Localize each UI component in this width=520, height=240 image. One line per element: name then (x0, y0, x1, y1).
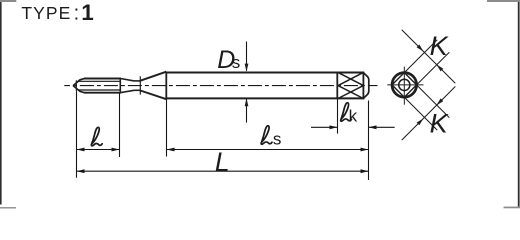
dim K top arrow 1 (417, 45, 424, 52)
shank junction line (165, 72, 167, 100)
dim l left arrow (77, 148, 85, 152)
dim K bottom arrow 1 (417, 118, 424, 125)
K ext line lower-left flat (404, 97, 437, 130)
dim K top arrow 2 (436, 64, 443, 71)
dim L line (77, 170, 369, 172)
square cross diagonal 2 (338, 72, 363, 85)
square end line (362, 72, 364, 100)
thread root line top (78, 80, 121, 82)
thread OD bottom (84, 92, 121, 94)
neck top (134, 80, 141, 82)
square section start line (336, 72, 338, 100)
dim L right arrow (361, 169, 369, 173)
dim Ds upper arrow (245, 64, 249, 72)
K ext line upper-right flat (417, 85, 450, 118)
shank bottom line (166, 97, 363, 99)
svg-text:L: L (215, 147, 230, 177)
end view inner circle (399, 79, 410, 90)
square cross diagonal 1 (338, 72, 363, 85)
dim L left arrow (77, 169, 85, 173)
svg-text:k: k (349, 106, 358, 125)
end view crosshair horizontal (387, 84, 423, 86)
border stub top-right (487, 0, 520, 2)
thread OD top (84, 78, 121, 80)
border stub bottom-left (0, 207, 16, 208)
border stub bottom-right (504, 207, 520, 209)
thread root line bottom (78, 89, 121, 91)
square cross diagonal 3 (338, 86, 363, 99)
dim Ds lower arrow (245, 98, 249, 106)
ext line shank start (ls left) (166, 99, 168, 156)
centerline (tool axis) (64, 85, 377, 87)
ext line thread end (l right) (119, 93, 121, 157)
end view square (diamond) (392, 73, 417, 98)
dim K top line (402, 30, 456, 84)
neck bottom (134, 89, 141, 91)
svg-text:K: K (430, 31, 449, 61)
end view outer circle (392, 73, 417, 98)
dim l right arrow (112, 148, 120, 152)
dim Ds lower line (246, 99, 248, 123)
border right (518, 0, 520, 207)
dim lk right tail (369, 126, 395, 128)
ext line square start (lk left) (337, 99, 339, 133)
thread end line (119, 79, 121, 93)
dim K bottom arrow 2 (436, 98, 443, 105)
end chamfer cap (363, 72, 369, 99)
dim ls right arrow (361, 148, 369, 152)
border left (0, 0, 2, 205)
label l (script ell) (91, 127, 102, 146)
shank top line (166, 72, 363, 74)
chamfer boundary line (75, 80, 77, 91)
svg-text::: : (74, 2, 80, 24)
end view crosshair vertical (403, 67, 405, 105)
ext line tip (l and L left) (76, 91, 78, 178)
ext line tool end (lk ls L right) (368, 101, 370, 181)
dim lk left arrow (330, 125, 338, 129)
svg-text:s: s (273, 129, 282, 148)
svg-text:s: s (232, 53, 241, 72)
dim ls left arrow (167, 148, 175, 152)
dim Ds upper line (246, 42, 248, 71)
svg-text:TYPE: TYPE (21, 3, 71, 23)
K ext line upper-left flat (404, 40, 437, 73)
dim lk left tail (311, 126, 338, 128)
border stub top-left (0, 0, 16, 2)
cone to shank (140, 72, 166, 100)
svg-text:K: K (430, 108, 449, 138)
dim l line (77, 149, 120, 151)
tip chamfer cone (73, 79, 84, 93)
dim ls line (167, 149, 369, 151)
square cross diagonal 4 (338, 86, 363, 99)
dim K bottom line (402, 87, 456, 141)
K ext line lower-right flat (417, 52, 450, 85)
taper to neck (120, 79, 134, 93)
label ls (261, 126, 272, 145)
dim lk right arrow (369, 125, 377, 129)
neck/cone junction line (139, 76, 141, 94)
svg-text:1: 1 (81, 0, 94, 25)
label lk (341, 103, 352, 122)
